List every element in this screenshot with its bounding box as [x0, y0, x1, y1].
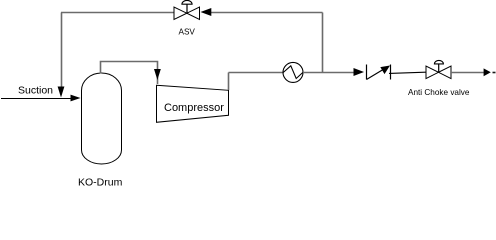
arrowhead recycle flow into ASV	[201, 8, 212, 16]
svg-text:Compressor: Compressor	[164, 102, 224, 114]
arrowhead into compressor inlet	[154, 69, 161, 80]
wire anti choke valve to outlet	[451, 72, 484, 74]
outlet continuation dash	[493, 72, 496, 74]
wire cooler to check valve	[303, 72, 354, 74]
anti choke valve actuator	[434, 60, 443, 72]
wire recycle drop to suction	[61, 13, 63, 88]
wire recycle riser (discharge to top)	[322, 13, 324, 73]
svg-text:Suction: Suction	[18, 85, 53, 97]
svg-text:KO-Drum: KO-Drum	[78, 177, 123, 189]
wire recycle top line left segment	[61, 12, 174, 14]
svg-text:ASV: ASV	[179, 28, 196, 37]
outlet flow arrowhead	[484, 68, 491, 76]
flow arrowhead before check valve	[354, 68, 365, 76]
wire check valve to anti choke valve	[389, 72, 426, 73]
label Suction	[18, 85, 53, 97]
anti choke valve body	[426, 66, 451, 79]
wire recycle top line right segment	[211, 12, 323, 14]
label ASV	[179, 28, 196, 37]
wire discharge line to cooler	[229, 72, 284, 74]
label Compressor	[164, 102, 224, 114]
label Anti Choke valve	[408, 88, 470, 97]
svg-text:Anti Choke valve: Anti Choke valve	[408, 88, 470, 97]
compressor body	[157, 85, 229, 122]
arrowhead suction into KO-Drum	[71, 95, 81, 102]
check valve	[367, 65, 391, 80]
wire suction line	[1, 98, 72, 100]
heat exchanger / cooler circle	[283, 62, 303, 82]
KO-Drum vessel	[82, 73, 122, 164]
ASV actuator	[182, 0, 192, 13]
wire compressor discharge riser	[228, 73, 230, 91]
arrowhead recycle into suction line	[58, 87, 65, 98]
label KO-Drum	[78, 177, 123, 189]
ASV valve body	[174, 7, 200, 19]
wire drum overhead outlet	[101, 62, 158, 85]
